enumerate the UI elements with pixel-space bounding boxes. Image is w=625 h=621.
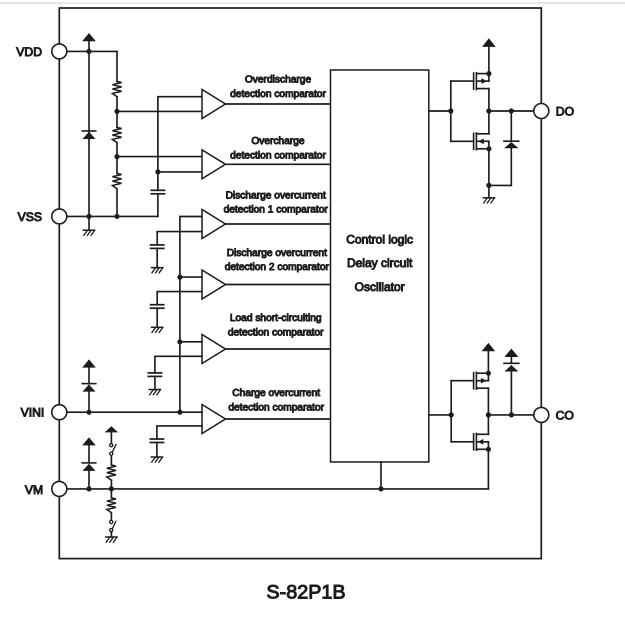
svg-text:Overcharge: Overcharge (251, 136, 305, 147)
svg-text:S-82P1B: S-82P1B (266, 581, 345, 603)
svg-text:Discharge overcurrent: Discharge overcurrent (227, 248, 327, 259)
svg-text:detection comparator: detection comparator (230, 89, 326, 100)
svg-text:VINI: VINI (21, 406, 45, 420)
svg-text:DO: DO (556, 104, 574, 118)
svg-text:VDD: VDD (16, 45, 42, 59)
svg-text:CO: CO (556, 408, 574, 422)
svg-text:detection 1 comparator: detection 1 comparator (224, 205, 329, 216)
svg-text:Charge overcurrent: Charge overcurrent (232, 388, 320, 399)
svg-text:VM: VM (25, 483, 43, 497)
svg-text:detection 2 comparator: detection 2 comparator (225, 262, 330, 273)
svg-text:Discharge overcurrent: Discharge overcurrent (226, 190, 326, 201)
svg-text:detection comparator: detection comparator (228, 327, 324, 338)
svg-text:Load short-circuiting: Load short-circuiting (230, 313, 322, 324)
svg-text:VSS: VSS (18, 210, 42, 224)
svg-text:Control logic: Control logic (346, 232, 413, 246)
svg-text:detection comparator: detection comparator (230, 151, 326, 162)
svg-text:Oscillator: Oscillator (355, 280, 405, 294)
svg-text:detection comparator: detection comparator (228, 403, 324, 414)
svg-text:Overdischarge: Overdischarge (245, 75, 312, 86)
svg-text:Delay circuit: Delay circuit (347, 256, 413, 270)
